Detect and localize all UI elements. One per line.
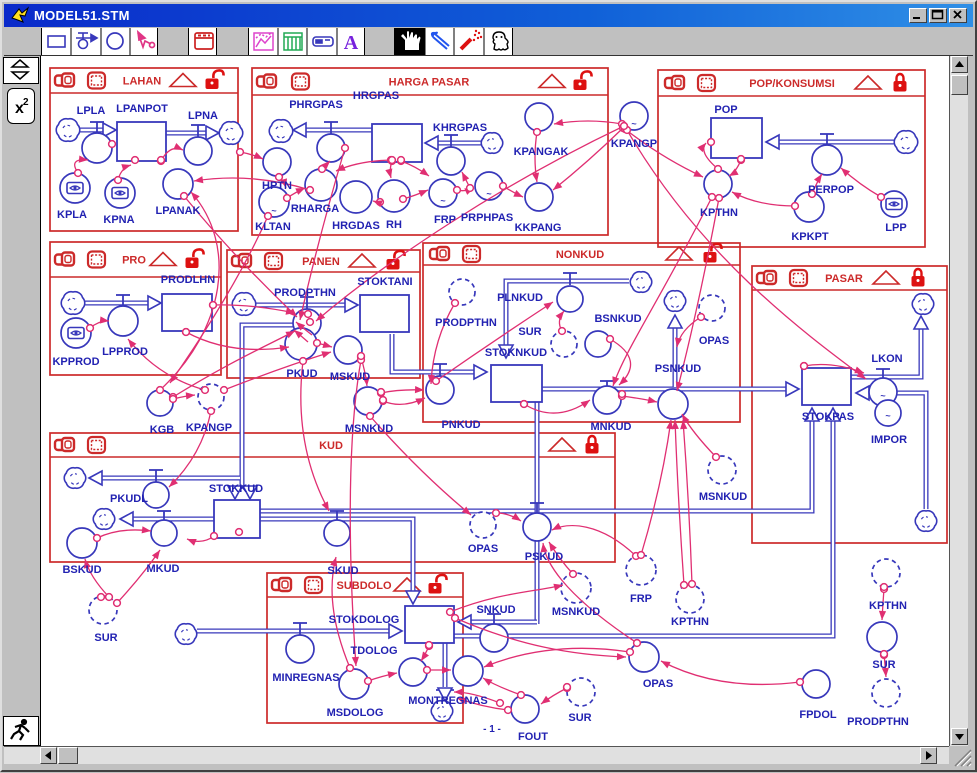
svg-text:OPAS: OPAS [699, 335, 729, 347]
svg-text:~: ~ [271, 206, 276, 216]
svg-text:LPANAK: LPANAK [155, 205, 200, 217]
svg-text:~: ~ [885, 411, 890, 421]
svg-text:MONTREGNAS: MONTREGNAS [408, 695, 487, 707]
svg-text:IMPOR: IMPOR [871, 434, 907, 446]
svg-text:LAHAN: LAHAN [123, 76, 162, 88]
svg-text:PSKUD: PSKUD [525, 551, 564, 563]
svg-text:PSNKUD: PSNKUD [655, 363, 702, 375]
svg-text:- 1 -: - 1 - [483, 724, 501, 735]
svg-text:RHARGA: RHARGA [291, 203, 339, 215]
svg-text:OPAS: OPAS [643, 678, 673, 690]
svg-text:STOKTANI: STOKTANI [357, 276, 412, 288]
svg-text:PRPHPAS: PRPHPAS [461, 212, 513, 224]
svg-text:KHRGPAS: KHRGPAS [433, 122, 487, 134]
svg-text:STOKDOLOG: STOKDOLOG [329, 614, 400, 626]
svg-text:PRODPTHN: PRODPTHN [847, 716, 909, 728]
svg-text:STOKNKUD: STOKNKUD [485, 347, 547, 359]
svg-text:POP: POP [714, 104, 737, 116]
svg-text:2: 2 [23, 97, 29, 108]
svg-text:KPANGP: KPANGP [186, 422, 232, 434]
svg-text:HRGPAS: HRGPAS [353, 90, 399, 102]
svg-text:KGB: KGB [150, 424, 175, 436]
svg-text:PHRGPAS: PHRGPAS [289, 99, 343, 111]
svg-text:KPTHN: KPTHN [869, 600, 907, 612]
svg-text:LPNA: LPNA [188, 110, 218, 122]
svg-text:MSKUD: MSKUD [330, 371, 370, 383]
svg-text:~: ~ [880, 391, 885, 401]
svg-text:PRO: PRO [122, 255, 146, 267]
svg-text:MSNKUD: MSNKUD [345, 423, 393, 435]
svg-text:A: A [344, 32, 359, 54]
svg-text:NONKUD: NONKUD [556, 249, 604, 261]
svg-text:PRODPTHN: PRODPTHN [274, 287, 336, 299]
svg-text:FPDOL: FPDOL [799, 709, 837, 721]
svg-text:KPTHN: KPTHN [700, 207, 738, 219]
svg-text:STOKPAS: STOKPAS [802, 411, 854, 423]
svg-text:PERPOP: PERPOP [808, 184, 854, 196]
svg-text:FRP: FRP [630, 593, 652, 605]
svg-text:PNKUD: PNKUD [441, 419, 480, 431]
svg-text:LPANPOT: LPANPOT [116, 103, 168, 115]
svg-text:MKUD: MKUD [147, 563, 180, 575]
svg-text:MSNKUD: MSNKUD [552, 606, 600, 618]
svg-text:POP/KONSUMSI: POP/KONSUMSI [749, 78, 835, 90]
svg-text:MSNKUD: MSNKUD [699, 491, 747, 503]
svg-text:PLNKUD: PLNKUD [497, 292, 543, 304]
svg-text:KLTAN: KLTAN [255, 221, 291, 233]
svg-text:OPAS: OPAS [468, 543, 498, 555]
svg-text:KUD: KUD [319, 440, 343, 452]
svg-text:HARGA PASAR: HARGA PASAR [389, 77, 470, 89]
svg-text:HRGDAS: HRGDAS [332, 220, 380, 232]
svg-text:RH: RH [386, 219, 402, 231]
svg-text:SUBDOLO: SUBDOLO [337, 580, 392, 592]
svg-text:PKUDL: PKUDL [110, 493, 148, 505]
svg-text:BSNKUD: BSNKUD [594, 313, 641, 325]
svg-text:KPANGP: KPANGP [611, 138, 657, 150]
svg-text:~: ~ [631, 119, 636, 129]
svg-text:FRP: FRP [434, 214, 456, 226]
svg-text:SUR: SUR [518, 326, 541, 338]
svg-text:LKON: LKON [871, 353, 902, 365]
svg-text:LPPROD: LPPROD [102, 346, 148, 358]
svg-text:PKUD: PKUD [286, 368, 317, 380]
svg-text:SUR: SUR [94, 632, 117, 644]
svg-text:SUR: SUR [872, 659, 895, 671]
svg-text:SUR: SUR [568, 712, 591, 724]
svg-text:BSKUD: BSKUD [62, 564, 101, 576]
svg-text:MNKUD: MNKUD [591, 421, 632, 433]
svg-text:KPLA: KPLA [57, 209, 87, 221]
svg-text:~: ~ [440, 196, 445, 206]
svg-text:KPANGAK: KPANGAK [514, 146, 569, 158]
svg-text:KPKPT: KPKPT [791, 231, 829, 243]
svg-text:LPP: LPP [885, 222, 906, 234]
svg-text:TDOLOG: TDOLOG [350, 645, 397, 657]
svg-text:KPNA: KPNA [103, 214, 134, 226]
svg-text:MINREGNAS: MINREGNAS [272, 672, 339, 684]
svg-text:FOUT: FOUT [518, 731, 548, 743]
svg-text:HPTN: HPTN [262, 180, 292, 192]
svg-text:KPTHN: KPTHN [671, 616, 709, 628]
svg-text:KKPANG: KKPANG [515, 222, 562, 234]
svg-text:KPPROD: KPPROD [52, 356, 99, 368]
svg-text:PASAR: PASAR [825, 273, 863, 285]
svg-text:SNKUD: SNKUD [476, 604, 515, 616]
svg-text:PANEN: PANEN [302, 256, 340, 268]
svg-text:LPLA: LPLA [77, 105, 106, 117]
svg-text:PRODPTHN: PRODPTHN [435, 317, 497, 329]
svg-text:MSDOLOG: MSDOLOG [327, 707, 384, 719]
svg-text:PRODLHN: PRODLHN [161, 274, 215, 286]
svg-text:STOKKUD: STOKKUD [209, 483, 263, 495]
svg-text:SKUD: SKUD [327, 565, 358, 577]
